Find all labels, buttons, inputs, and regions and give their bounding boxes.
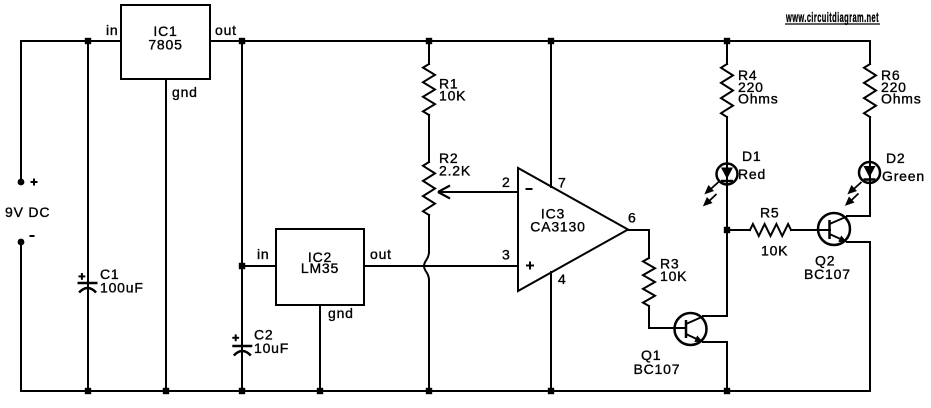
LED D1 emission arrows — [705, 182, 719, 205]
capacitor C2 — [232, 346, 252, 356]
C1 plus sign — [79, 273, 86, 280]
wire IC2 out to pin 3 — [364, 265, 518, 267]
wire pin6 to R3 — [648, 230, 650, 258]
op-amp plus symbol — [526, 262, 534, 270]
wire pin 4 — [550, 272, 552, 391]
svg-text:Ohms: Ohms — [881, 91, 922, 107]
website underline — [785, 23, 880, 25]
wire IC2 gnd — [319, 305, 321, 391]
IC2 LM35 box — [276, 229, 364, 305]
wire top rail — [21, 40, 870, 42]
resistor R1 — [423, 64, 435, 115]
svg-text:BC107: BC107 — [634, 361, 681, 377]
LED D1 — [717, 164, 738, 185]
svg-text:gnd: gnd — [172, 84, 198, 100]
wire Q2 emitter horizontal — [847, 241, 870, 243]
battery + terminal — [18, 179, 25, 186]
svg-text:Green: Green — [882, 168, 925, 184]
wire IC2 in — [242, 265, 276, 267]
svg-text:2.2K: 2.2K — [439, 163, 471, 179]
resistor R6 — [864, 64, 876, 117]
transistor Q2 — [818, 213, 850, 245]
wire below hop to bottom rail — [428, 280, 430, 391]
svg-text:gnd: gnd — [328, 305, 354, 321]
resistor R2 (preset) — [423, 162, 435, 215]
wire R6 to D2 to Q2 collector — [869, 117, 871, 216]
transistor Q1 — [675, 313, 707, 345]
svg-text:10K: 10K — [439, 88, 466, 104]
wire C1 branch — [87, 41, 89, 391]
wire pin 6 — [628, 229, 649, 231]
junction node IC2 in — [239, 263, 245, 269]
svg-text:out: out — [215, 22, 237, 38]
svg-text:Ohms: Ohms — [738, 91, 779, 107]
svg-text:LM35: LM35 — [301, 260, 339, 276]
R2 wiper arrowhead — [438, 186, 450, 199]
svg-text:7: 7 — [558, 175, 567, 191]
svg-text:10K: 10K — [761, 243, 788, 259]
wire junction to R5 — [727, 229, 750, 231]
wire R6 top — [869, 41, 871, 64]
svg-text:D1: D1 — [742, 148, 762, 164]
wire R3 to Q1 base — [648, 306, 650, 328]
svg-text:2: 2 — [502, 174, 511, 190]
resistor R5 — [750, 224, 791, 236]
svg-text:out: out — [370, 246, 392, 262]
wire R4 to D1 to Q1 collector rail — [726, 117, 728, 316]
battery - terminal — [18, 239, 25, 246]
svg-text:7805: 7805 — [148, 37, 182, 53]
wire IC1 gnd — [165, 79, 167, 391]
svg-text:www.circuitdiagram.net: www.circuitdiagram.net — [785, 9, 879, 25]
svg-text:3: 3 — [502, 247, 511, 263]
wire C2 / IC2 in branch — [241, 41, 243, 391]
wire R1 to R2 — [428, 115, 430, 162]
wire R2 bottom — [428, 215, 430, 252]
wire Q2 emitter to bottom rail — [869, 242, 871, 391]
wire Q1 emitter horizontal — [703, 341, 727, 343]
svg-text:CA3130: CA3130 — [530, 219, 585, 235]
capacitor C1 — [78, 283, 98, 293]
svg-text:D2: D2 — [886, 150, 906, 166]
wire left edge to + terminal — [20, 41, 22, 182]
wire R4 top — [726, 41, 728, 64]
wire Q1 collector horizontal — [703, 315, 727, 317]
svg-text:4: 4 — [558, 271, 567, 287]
wire Q2 collector horizontal — [847, 215, 870, 217]
wire R5 to Q2 base — [791, 229, 830, 231]
junction dots top rail — [85, 38, 730, 44]
wire wiper to pin 2 — [440, 191, 518, 193]
wire pin 7 — [550, 41, 552, 187]
wire - terminal to bottom rail — [20, 242, 22, 391]
LED D2 — [859, 162, 880, 183]
wire Q1 emitter to bottom rail — [726, 342, 728, 391]
LED D2 emission arrows — [847, 182, 862, 204]
op-amp minus symbol — [526, 188, 533, 190]
wire R1 top — [428, 41, 430, 64]
svg-text:in: in — [257, 246, 270, 262]
svg-text:BC107: BC107 — [804, 266, 851, 282]
junction dots bottom rail — [85, 388, 730, 394]
wire bottom rail — [21, 390, 870, 392]
svg-text:in: in — [106, 22, 119, 38]
battery + sign — [31, 179, 38, 186]
IC1 7805 box — [121, 5, 210, 79]
svg-text:10uF: 10uF — [254, 340, 289, 356]
resistor R4 — [721, 64, 733, 117]
resistor R3 — [643, 258, 655, 306]
svg-text:6: 6 — [628, 210, 637, 226]
svg-text:10K: 10K — [660, 268, 687, 284]
svg-text:9V DC: 9V DC — [5, 204, 50, 220]
svg-text:100uF: 100uF — [100, 280, 144, 296]
svg-text:Red: Red — [738, 166, 766, 182]
wire crossover hop — [424, 252, 429, 280]
junction node D1 / R5 — [724, 227, 730, 233]
wire Q1 base — [649, 327, 686, 329]
svg-text:R5: R5 — [760, 205, 780, 221]
C2 plus sign — [232, 334, 239, 341]
battery - sign — [30, 235, 35, 237]
op-amp U1 triangle IC3 — [518, 168, 628, 291]
